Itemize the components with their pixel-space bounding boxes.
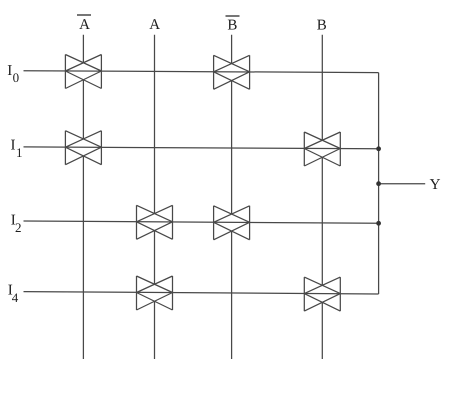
- transmission gate row I1 / B: [304, 132, 340, 166]
- label A-bar (overbar): [77, 14, 91, 16]
- transmission gate row I1 / A-bar: [65, 131, 101, 165]
- wire: output Y tap: [379, 183, 426, 185]
- transmission gate row I0 / B-bar: [214, 55, 250, 89]
- wire: control line B-bar (vertical): [231, 35, 233, 359]
- wire: output bus (vertical, right): [378, 73, 380, 294]
- wire: control line A-bar (vertical): [82, 35, 84, 359]
- svg-text:I: I: [7, 63, 12, 79]
- transmission gate row I0 / A-bar: [65, 55, 101, 89]
- transmission gate row I4 / A: [137, 276, 173, 310]
- junction node at I1/bus: [376, 146, 381, 151]
- wire: input row I2: [24, 221, 379, 223]
- svg-text:2: 2: [15, 220, 22, 235]
- svg-text:0: 0: [13, 70, 20, 85]
- svg-text:I: I: [11, 138, 16, 154]
- junction node at I2/bus: [376, 221, 381, 226]
- svg-text:A: A: [149, 17, 160, 33]
- wire: input row I0: [24, 71, 379, 73]
- transmission gate row I4 / B: [304, 277, 340, 311]
- svg-text:B: B: [317, 18, 327, 34]
- wire: input row I4: [24, 292, 379, 294]
- wire: control line B (vertical): [321, 35, 323, 359]
- junction node at Y tap: [376, 181, 381, 186]
- wire: control line A (vertical): [154, 35, 156, 359]
- svg-text:Y: Y: [430, 177, 441, 193]
- svg-text:1: 1: [16, 145, 23, 160]
- svg-text:A: A: [79, 17, 90, 33]
- svg-text:B: B: [227, 18, 237, 34]
- label B-bar (overbar): [226, 15, 240, 17]
- wire: input row I1: [24, 147, 379, 149]
- svg-text:4: 4: [12, 290, 19, 305]
- transmission gate row I2 / A: [137, 205, 173, 239]
- transmission gate row I2 / B-bar: [214, 206, 250, 240]
